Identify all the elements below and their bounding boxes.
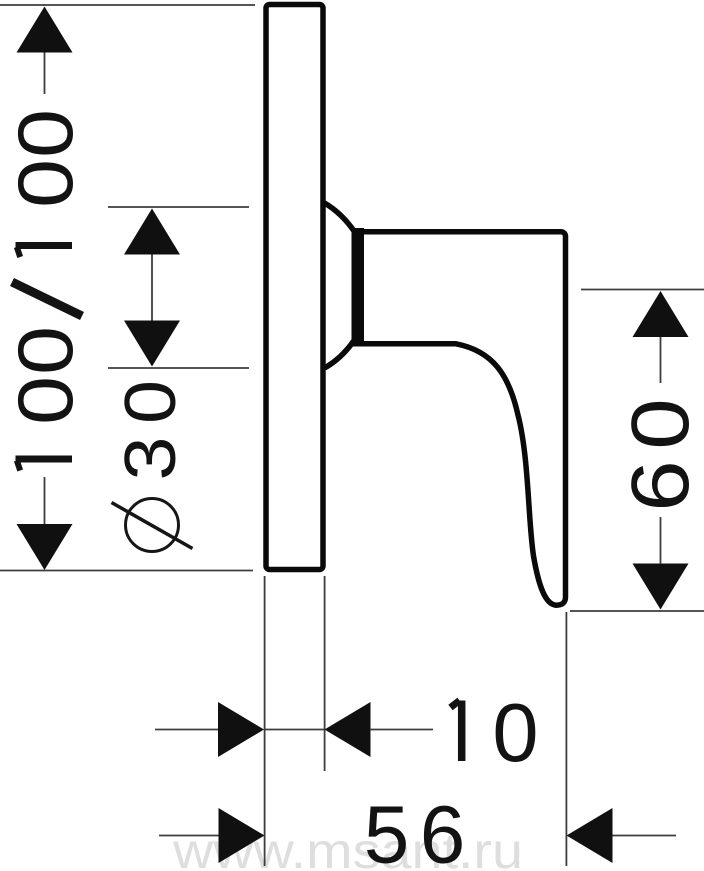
mid dimension top extension line [108, 206, 249, 208]
10 dimension right tail [370, 729, 433, 731]
56 dimension right tail [613, 835, 677, 837]
svg-text:0: 0 [2, 326, 89, 375]
56 dimension left arrow [219, 808, 265, 863]
60 dimension arrow down [633, 517, 689, 610]
svg-text:0: 0 [2, 159, 89, 208]
escutcheon plate (side view) [266, 5, 323, 570]
svg-text:0: 0 [2, 376, 89, 425]
svg-text:6: 6 [614, 460, 704, 512]
56 dimension left tail [159, 835, 219, 837]
svg-text:5: 5 [364, 789, 410, 871]
60 dimension bottom extension line [570, 610, 704, 612]
10 dimension left tail [155, 729, 219, 731]
label 100/100 [2, 109, 89, 471]
watermark www.msant.ru [172, 823, 523, 871]
handle lever outline [358, 232, 566, 606]
top extension line [0, 4, 255, 6]
handle tip extension line [565, 612, 567, 866]
svg-text:0: 0 [2, 109, 89, 158]
stem top fillet [325, 203, 355, 231]
svg-text:0: 0 [110, 380, 191, 424]
56 dimension right arrow [567, 808, 613, 863]
mid dimension stem [151, 255, 153, 323]
plate right extension line [324, 576, 326, 771]
bottom extension line of 100/100 [0, 570, 253, 572]
10 dimension middle segment [264, 729, 324, 731]
mid dimension arrow down [124, 321, 180, 367]
60 dimension arrow up [633, 291, 689, 383]
mid dimension bottom extension line [108, 367, 249, 369]
mid dimension arrow up [124, 209, 180, 255]
stem bottom fillet [325, 341, 355, 369]
label 10 [451, 686, 539, 779]
stem bar [352, 228, 365, 347]
svg-text:6: 6 [420, 789, 466, 871]
dimension 100/100 arrow up [17, 7, 73, 95]
svg-text:0: 0 [614, 398, 704, 450]
label 56 [364, 789, 466, 871]
dimension 100/100 arrow down [17, 477, 73, 570]
60 dimension top extension line [581, 289, 704, 291]
svg-text:3: 3 [110, 436, 191, 480]
10 dimension right arrow [325, 702, 371, 757]
label 30 [110, 380, 191, 481]
10 dimension left arrow [218, 702, 264, 757]
svg-text:0: 0 [492, 686, 538, 779]
diameter symbol [112, 499, 193, 552]
label 60 [614, 398, 704, 512]
plate left extension line [264, 576, 266, 866]
